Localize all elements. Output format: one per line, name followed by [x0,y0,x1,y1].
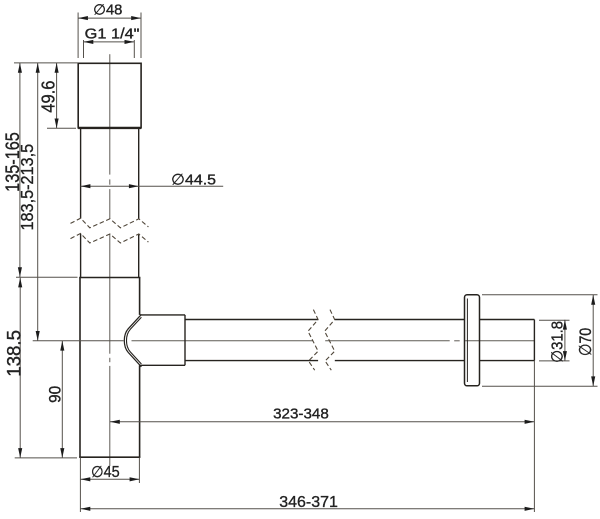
dimension Ø70: line [592,295,594,386]
svg-text:∅31.8: ∅31.8 [550,321,567,363]
arrow Ø48 right [131,16,141,20]
extension line: bottom of trap body [15,457,77,459]
extension line at pipe end [533,361,535,512]
dimension line 90 [61,341,63,458]
arrow Ø45 right [130,477,140,481]
top compression nut of trap inlet [78,63,141,128]
extension line: top of nut [14,62,78,64]
dimension 346-371: line [81,508,535,510]
arrow 323-348 left [110,420,120,424]
svg-text:∅44.5: ∅44.5 [171,171,216,188]
arrow Ø31.8 top [563,320,567,330]
svg-text:138.5: 138.5 [3,330,25,377]
node vertical centerline of trap body [109,54,111,466]
dimension line 135-165 [19,63,21,277]
dimension Ø44.5: line with leader [81,185,224,187]
dimension 323-348: line [110,421,534,423]
arrow 323-348 right [525,420,535,424]
svg-text:∅48: ∅48 [93,3,122,19]
arrow 183,5-213,5 top [36,63,40,73]
arrow Ø45 left [81,477,91,481]
arrow Ø44.5 left [81,184,91,188]
extension line: bottom of nut [47,127,76,129]
arrow 49.6 bottom [55,119,59,129]
arrow 183,5-213,5 bottom [36,331,40,341]
arrow Ø31.8 bottom [563,351,567,361]
horizontal outlet pipe (Ø31.8) [185,320,534,361]
svg-text:346-371: 346-371 [279,494,338,511]
svg-text:323-348: 323-348 [273,407,329,423]
extension line: top of trap body [16,276,78,278]
svg-text:49.6: 49.6 [39,80,59,112]
dimension Ø31.8: extension lines [539,319,570,321]
dimension line 49.6 [56,63,58,128]
dimension line 183,5-213,5 [37,63,39,341]
dimension G1 1/4": extension lines [83,40,85,58]
arrow G1 left [84,40,94,44]
break (right zigzag) in horizontal pipe [325,310,335,371]
break (lower zigzag) in vertical pipe [71,233,149,243]
svg-text:∅70: ∅70 [576,328,595,356]
dimension Ø48: extension lines [77,13,79,59]
dimension Ø45: line [81,478,140,480]
arrow Ø48 left [78,16,88,20]
dimension Ø31.8: line [564,320,566,361]
trap body (bottle, Ø45) [79,278,140,458]
arrow 138.5 bottom [18,448,22,458]
vertical inlet pipe (Ø44.5) [81,128,139,278]
arrow G1 right [125,40,135,44]
extension line: outlet axis (left) [33,340,124,342]
arrow 346-371 right [525,507,535,511]
wall flange (Ø70) [465,295,480,386]
arrow Ø70 bottom [591,376,595,386]
dimension line 138.5 [19,278,21,458]
svg-text:183,5-213,5: 183,5-213,5 [17,144,37,231]
arrow 49.6 top [55,63,59,73]
arrow 90 top [60,341,64,351]
dimension Ø48: line [78,17,141,19]
node horizontal centerline of outlet pipe [132,340,535,342]
svg-text:90: 90 [47,386,65,403]
arrow 90 bottom [60,448,64,458]
arrow Ø44.5 right [129,184,139,188]
arrow Ø70 top [591,295,595,305]
arrow 135-165 top [18,63,22,73]
break (upper zigzag) in vertical pipe [71,218,149,228]
arrow 346-371 left [81,507,91,511]
svg-text:G1 1/4": G1 1/4" [85,27,140,43]
elbow outlet fitting on trap body [124,314,185,366]
arrow 138.5 top [18,278,22,288]
dimension G1 1/4": line [84,41,135,43]
arrow 135-165 bottom [18,267,22,277]
break (left zigzag) in horizontal pipe [308,310,318,371]
dimension Ø70: extension lines [482,294,598,296]
svg-text:∅45: ∅45 [91,464,120,481]
dimension Ø45: extension lines [79,458,81,513]
